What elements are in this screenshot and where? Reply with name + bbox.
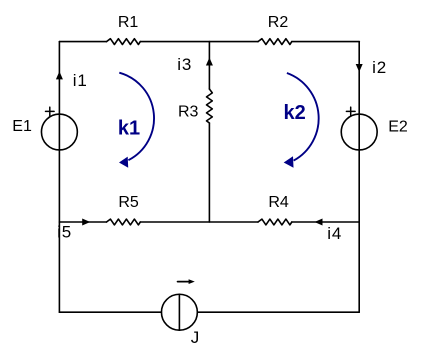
arrow i1	[56, 71, 63, 79]
wire bottom-right	[197, 311, 359, 313]
loop arrowhead k2	[284, 156, 294, 168]
wire left	[58, 42, 60, 313]
arrow i3	[206, 58, 213, 66]
svg-text:k2: k2	[283, 102, 305, 124]
svg-text:i4: i4	[327, 224, 342, 243]
resistor R5	[107, 219, 141, 225]
wire right	[358, 42, 360, 313]
voltage source E1	[41, 114, 77, 150]
resistor R2	[258, 39, 292, 45]
resistor R4	[258, 219, 292, 225]
resistor R3	[207, 89, 213, 123]
arrow i5	[82, 219, 90, 226]
plus sign E1	[46, 107, 55, 116]
wire middle-left	[59, 221, 106, 223]
current source J bar	[178, 294, 180, 330]
svg-text:R2: R2	[268, 14, 289, 31]
wire center-bottom	[208, 123, 210, 222]
voltage source E2	[341, 114, 377, 150]
plus sign E2	[346, 107, 355, 116]
current source J direction arrowhead	[189, 279, 195, 284]
svg-text:i1: i1	[73, 71, 88, 90]
svg-text:E1: E1	[12, 118, 32, 135]
wire top-right	[292, 41, 359, 43]
current source J	[161, 294, 197, 330]
wire top-left	[59, 41, 106, 43]
loop arrow k2	[287, 73, 319, 161]
resistor R1	[107, 39, 141, 45]
svg-text:k1: k1	[118, 117, 140, 139]
wire middle-right	[292, 221, 359, 223]
svg-text:R5: R5	[118, 194, 139, 211]
wire top-middle	[140, 41, 258, 43]
wire middle-center	[140, 221, 258, 223]
svg-text:J: J	[191, 328, 200, 347]
wire center-top	[208, 42, 210, 89]
loop arrow k1	[119, 73, 154, 161]
arrow i4	[315, 219, 323, 226]
svg-text:i5: i5	[57, 223, 72, 242]
loop arrowhead k1	[119, 157, 128, 168]
current source J direction arrow shaft	[178, 281, 189, 283]
wire bottom-left	[59, 311, 161, 313]
svg-text:i3: i3	[177, 55, 192, 74]
svg-text:E2: E2	[388, 118, 408, 135]
svg-text:i2: i2	[372, 58, 387, 77]
svg-text:R1: R1	[118, 14, 139, 31]
svg-text:R4: R4	[268, 194, 289, 211]
svg-text:R3: R3	[178, 103, 199, 120]
arrow i2	[356, 64, 363, 72]
